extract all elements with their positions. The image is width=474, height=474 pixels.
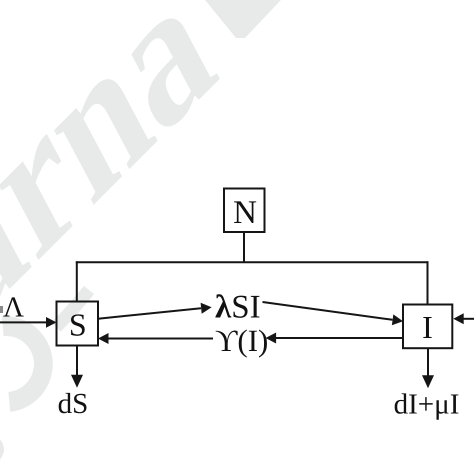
- svg-text:λSI: λSI: [215, 290, 261, 326]
- arrow lambda-SI to I: [263, 302, 404, 325]
- arrow I down to dI+muI: [422, 348, 434, 388]
- svg-text:I: I: [422, 309, 433, 345]
- svg-text:N: N: [233, 195, 257, 231]
- wire N to bus: [243, 232, 245, 262]
- arrow Upsilon(I) to S: [98, 333, 213, 344]
- arrow Lambda into S: [0, 317, 57, 328]
- node S box: [57, 302, 99, 346]
- watermark letter p descender wedge from line above: [205, 0, 281, 38]
- arrow from right edge into I: [453, 313, 474, 324]
- node I box: [403, 305, 452, 349]
- arrow I to Upsilon(I): [266, 333, 403, 344]
- watermark letter u bowl fragment crossing S box: [56, 290, 89, 327]
- svg-text:Λ: Λ: [3, 291, 24, 323]
- svg-text:dI+μI: dI+μI: [394, 389, 460, 421]
- svg-text:dS: dS: [58, 388, 89, 420]
- watermark letter J hook tip fragment: [0, 437, 4, 462]
- cropped glyph fragment left edge: [0, 306, 3, 313]
- watermark letter o right bowl fragment: [2, 316, 53, 412]
- arrow S down to dS: [71, 346, 83, 388]
- svg-text:ϒ(I): ϒ(I): [215, 323, 268, 358]
- wire horizontal bus: [76, 261, 429, 263]
- wire bus to I: [427, 261, 429, 304]
- wire bus to S: [76, 261, 78, 301]
- svg-text:S: S: [69, 306, 87, 342]
- watermark "Journal" fragment: [0, 0, 271, 422]
- arrow S to lambda-SI: [98, 303, 212, 319]
- node N box: [224, 189, 265, 233]
